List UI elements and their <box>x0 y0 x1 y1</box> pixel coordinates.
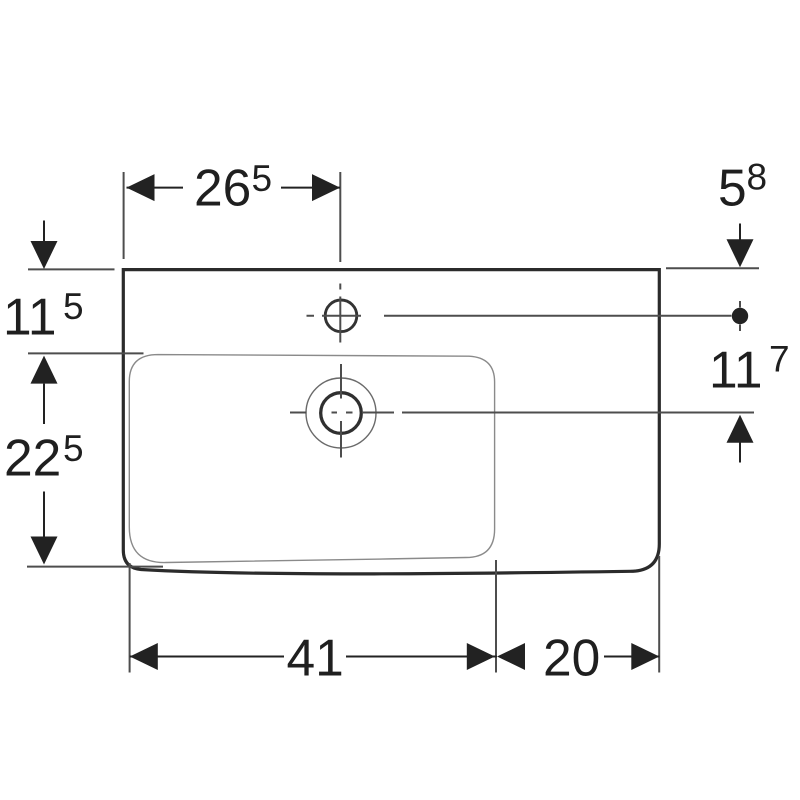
svg-text:26: 26 <box>194 159 251 217</box>
extension line bottom right vertical <box>658 556 660 673</box>
dimension 11.5 arrow down <box>43 221 45 245</box>
extension line top-left horizontal <box>28 268 115 270</box>
svg-text:8: 8 <box>747 157 768 198</box>
dimension 11.7 arrow up <box>727 415 754 443</box>
extension line left at basin top <box>28 352 144 354</box>
faucet hole centerline vertical <box>339 172 341 343</box>
extension line for 26.5 left vertical <box>123 172 125 259</box>
outer basin outline <box>122 268 660 574</box>
faucet hole centerline horizontal <box>307 315 732 317</box>
dimension 26.5 left arrow <box>127 174 155 201</box>
extension line top-right horizontal <box>666 267 759 269</box>
dimension 41 line <box>130 656 660 658</box>
inner basin bowl <box>129 355 494 563</box>
drain centerline vertical <box>340 364 342 458</box>
dimension 20 left arrow <box>497 643 525 670</box>
svg-text:22: 22 <box>4 429 61 487</box>
svg-text:5: 5 <box>63 286 84 327</box>
extension line bottom middle vertical <box>495 560 497 673</box>
drain centerline horizontal <box>290 412 754 414</box>
dimension 26.5 line <box>127 187 341 189</box>
dimension 22.5 arrow down <box>43 492 45 538</box>
svg-text:7: 7 <box>769 339 790 380</box>
svg-text:20: 20 <box>543 629 600 687</box>
svg-text:11: 11 <box>3 288 56 346</box>
dimension 5.8 arrow down <box>739 224 741 241</box>
svg-text:41: 41 <box>287 629 344 687</box>
svg-text:5: 5 <box>252 158 273 199</box>
dimension 41 right arrow <box>467 643 495 670</box>
extension line left at basin bottom <box>27 566 163 568</box>
faucet hole <box>325 300 357 332</box>
svg-text:5: 5 <box>718 159 747 217</box>
drain hole outer circle <box>306 378 376 448</box>
dot marker centerline vertical <box>739 301 741 331</box>
svg-text:5: 5 <box>63 428 84 469</box>
drain hole inner circle <box>321 393 362 434</box>
dimension 20 right arrow <box>631 643 659 670</box>
svg-text:11: 11 <box>709 341 762 399</box>
dimension 26.5 right arrow <box>312 174 340 201</box>
dimension 22.5 arrow up <box>43 384 45 424</box>
dimension 41 left arrow <box>130 643 158 670</box>
dimension 11.7 dot marker <box>732 308 748 324</box>
extension line bottom left vertical <box>129 563 131 673</box>
